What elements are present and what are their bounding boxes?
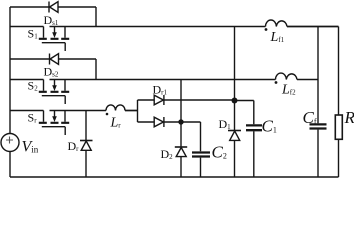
inductor Lf2 (275, 73, 297, 84)
svg-text:Vin: Vin (22, 139, 39, 156)
svg-text:C2: C2 (212, 142, 227, 161)
svg-text:Ds2: Ds2 (44, 65, 59, 79)
svg-text:Lr: Lr (110, 115, 122, 130)
diode Dr (80, 141, 93, 178)
wire S2 to D2 vertical (180, 80, 182, 147)
transistor S1 (39, 27, 69, 52)
svg-text:S2: S2 (28, 79, 39, 93)
transistor Sr (39, 111, 69, 136)
svg-text:C1: C1 (262, 117, 277, 136)
inductor Lf1 (265, 20, 287, 31)
wire S2 row (10, 79, 318, 81)
diode Dr1 lower (154, 117, 164, 127)
transistor S2 (39, 80, 69, 105)
source Vin (1, 134, 19, 152)
inductor Lr (106, 105, 125, 115)
node dot D2 junction (178, 119, 183, 124)
svg-text:Cf: Cf (303, 108, 317, 127)
wire Dr1 top branch (138, 99, 235, 101)
svg-text:Ds1: Ds1 (44, 13, 59, 27)
wire bracket vertical (137, 100, 139, 122)
diode D1 (228, 131, 241, 178)
diode Ds2 (50, 54, 59, 65)
wire Dr branch (85, 111, 87, 141)
capacitor Cf (310, 124, 327, 177)
svg-text:Dr: Dr (68, 139, 80, 153)
svg-text:Lf1: Lf1 (270, 30, 285, 45)
wire node to C1 (235, 101, 254, 125)
diode D2 (175, 147, 187, 177)
wire right rail (287, 26, 339, 28)
node dot main (232, 98, 238, 104)
capacitor C1 (246, 125, 262, 177)
svg-text:D2: D2 (161, 147, 174, 161)
svg-text:S1: S1 (28, 27, 39, 41)
svg-text:Lf2: Lf2 (281, 82, 296, 97)
wire left rail (9, 7, 11, 134)
resistor R1 (335, 115, 342, 139)
wire Ds2 loop (10, 59, 96, 80)
diode Ds1 (49, 2, 58, 13)
svg-text:Sr: Sr (28, 111, 38, 125)
wire top loop (Ds1 branch) (10, 7, 96, 27)
svg-text:Dr1: Dr1 (153, 83, 168, 97)
wire S1 row to node vertical (234, 27, 236, 131)
svg-text:D1: D1 (219, 117, 232, 131)
capacitor C2 (192, 153, 210, 178)
wire output node vertical Cf (317, 27, 319, 124)
diode Dr1 (154, 95, 164, 105)
wire Sr row (10, 110, 138, 112)
svg-text:Rl: Rl (344, 108, 354, 127)
wire S1 row (10, 26, 339, 28)
wire bottom rail (10, 176, 339, 178)
wire Dr1 bottom branch (138, 122, 201, 151)
wire Lr to bracket (125, 110, 138, 112)
wire left rail lower (9, 152, 11, 178)
